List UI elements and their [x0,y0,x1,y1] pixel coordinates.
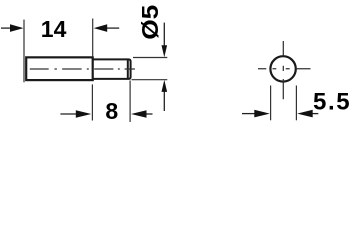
svg-text:5.5: 5.5 [313,89,350,116]
horizontal centerline of end view [258,68,311,70]
arrowhead up of diameter 5 [162,80,168,92]
vertical centerline of end view [282,41,284,99]
arrowhead right of dimension 8 [131,110,147,118]
arrowhead left of dimension 14 [10,24,24,32]
circle end view of pin [270,56,295,81]
extension line left of dimension 14 [23,20,25,83]
extension line left of dimension 5.5 [270,86,272,121]
dimension line 14, left tail [1,27,12,29]
extension line right of dimension 8 (below pin end) [129,81,131,123]
small cylinder body (side view) [93,59,131,79]
dimension line 5.5, right tail [312,113,318,115]
arrowhead down of diameter 5 [162,45,168,57]
svg-text:14: 14 [41,16,67,42]
dimension line 8, right tail [146,113,153,115]
dimension line diameter 5, upper segment [163,23,165,46]
svg-text:8: 8 [105,98,118,124]
svg-text:Ø5: Ø5 [137,5,163,40]
dimension line 8, left tail [60,113,76,115]
large cylinder body (side view) [26,57,93,80]
arrowhead right of dimension 14 [94,24,108,32]
extension line left of dimension 8 (below step) [91,84,93,120]
arrowhead right of dimension 5.5 [297,110,313,118]
arrowhead left of dimension 8 [76,110,92,118]
extension line right of dimension 5.5 [295,86,297,121]
extension line top of diameter 5 [133,57,167,59]
pin centerline (dash-dot) [30,68,135,70]
arrowhead left of dimension 5.5 [254,110,269,118]
extension line bottom of diameter 5 [132,79,168,81]
extension line right of dimension 14 (above step) [92,19,94,58]
dimension line 5.5, left tail [242,113,255,115]
dimension line diameter 5, lower segment [163,91,165,111]
dimension line 14, right tail [107,27,120,29]
chamfer line at pin tip [127,60,129,79]
